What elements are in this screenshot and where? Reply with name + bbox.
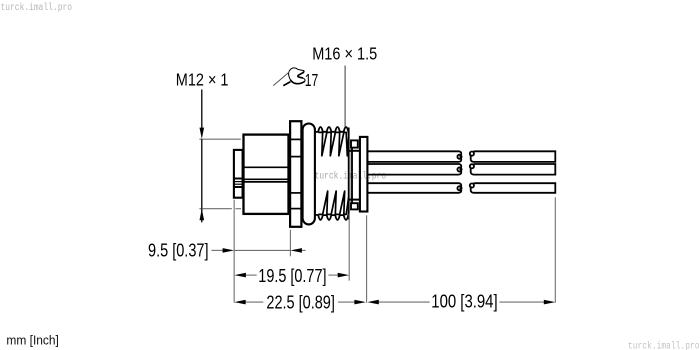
dimension 100 line right [499, 301, 544, 303]
seal washer capsule [303, 124, 315, 225]
M16 leader line [344, 66, 346, 127]
svg-text:M16 × 1.5: M16 × 1.5 [312, 43, 377, 63]
wire 3 right segment [470, 183, 556, 193]
svg-text:17: 17 [305, 70, 319, 90]
M12 bottom extension dash [235, 208, 241, 210]
dimension 19.5 arrow right [338, 273, 350, 278]
hex nut facet line 1 [290, 138, 301, 140]
connector body hex [244, 135, 289, 214]
M16 thread top band crest [316, 127, 349, 132]
M12 dimension arrow down [200, 128, 205, 139]
M16 thread bottom band root zigzag [318, 191, 348, 214]
hex nut facet line 3 [290, 192, 301, 194]
wire 1 right segment [470, 151, 556, 162]
M12 front tip [234, 150, 243, 198]
extension line B (nut face) [289, 230, 291, 256]
dimension 100 line left [379, 301, 430, 303]
thread end face [348, 128, 350, 220]
tip keyway line 2 [234, 181, 243, 183]
body groove line 1 [244, 166, 289, 168]
dimension 9.5 leader [212, 249, 224, 251]
wire 3 outline [367, 183, 461, 193]
M12 diameter top extension [199, 138, 240, 140]
dimension 9.5 arrow left [290, 248, 302, 253]
wire 2 right segment [470, 164, 556, 175]
top mounting tab [351, 140, 358, 147]
back plate [351, 140, 353, 209]
M12 diameter bottom extension [199, 208, 232, 210]
tip keyway line 3 [234, 183, 243, 185]
wrench icon [273, 68, 305, 86]
extension line C (panel face) [348, 214, 350, 281]
dimension 19.5 line left [246, 274, 257, 276]
back flange column [360, 137, 368, 212]
neck bottom line [349, 199, 360, 201]
dimension 19.5 line right [328, 274, 337, 276]
svg-text:9.5 [0.37]: 9.5 [0.37] [148, 240, 209, 260]
svg-text:turck.imall.pro: turck.imall.pro [628, 341, 700, 350]
M12 leader and diameter dimension line [201, 90, 203, 129]
tip keyway line 4 [234, 186, 243, 188]
svg-text:22.5 [0.89]: 22.5 [0.89] [266, 292, 335, 312]
bottom mounting tab [351, 203, 358, 209]
hex nut facet line 2 [290, 156, 301, 158]
tip keyway line 1 [234, 178, 243, 180]
dimension 100 arrow right [544, 300, 556, 305]
hex nut facet line 4 [290, 208, 301, 210]
neck top line [349, 150, 360, 152]
wire 1 outline [367, 151, 461, 162]
dimension 9.5 right tail [302, 249, 306, 251]
dimension 9.5 line [234, 249, 290, 251]
svg-text:mm [Inch]: mm [Inch] [6, 333, 59, 348]
wire 2 outline [367, 164, 461, 175]
svg-text:19.5 [0.77]: 19.5 [0.77] [258, 266, 326, 286]
dimension 19.5 arrow left [234, 273, 246, 278]
svg-text:turck.imall.pro: turck.imall.pro [1, 2, 73, 14]
M16 thread top band root zigzag [318, 132, 348, 155]
extension line D (flange back) [366, 215, 368, 302]
extension line E (wire end) [554, 197, 556, 302]
hex nut body [290, 121, 301, 227]
M12 dimension arrow up [200, 209, 205, 220]
dimension 22.5 line right [338, 301, 355, 303]
body groove line 2 [244, 178, 289, 180]
svg-text:M12 × 1: M12 × 1 [176, 70, 229, 90]
dimension 22.5 arrow right [354, 300, 366, 305]
dimension 9.5 arrow right [223, 248, 235, 253]
svg-text:100 [3.94]: 100 [3.94] [431, 292, 497, 312]
dimension 22.5 line left [246, 301, 264, 303]
dimension 22.5 arrow left [234, 300, 246, 305]
M16 thread bottom band crest [316, 215, 349, 220]
extension line A (front face) [233, 200, 235, 303]
body groove line 3 [244, 181, 289, 183]
dimension 100 arrow left [367, 300, 379, 305]
svg-text:turck.imall.pro: turck.imall.pro [315, 171, 387, 183]
